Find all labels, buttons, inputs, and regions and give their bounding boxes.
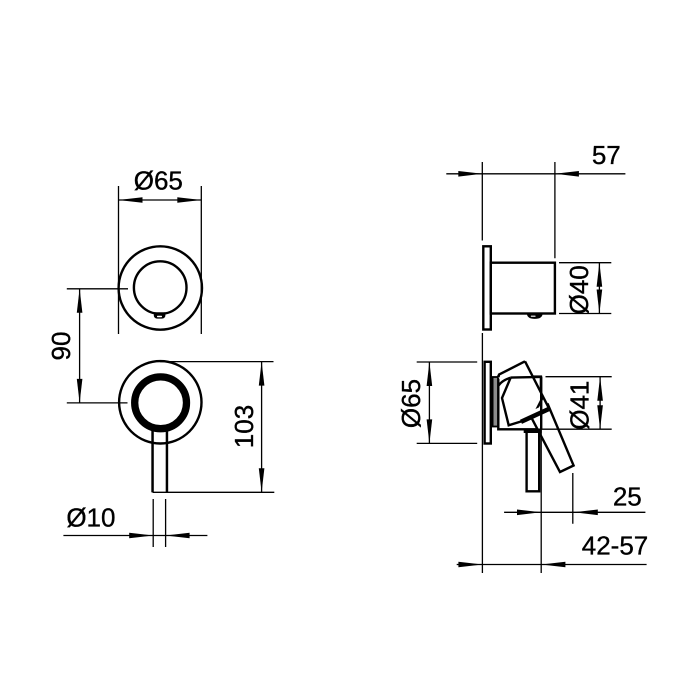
svg-text:Ø65: Ø65	[396, 379, 426, 428]
svg-text:25: 25	[613, 482, 642, 512]
svg-text:Ø10: Ø10	[66, 502, 115, 532]
svg-text:90: 90	[46, 332, 76, 361]
svg-text:57: 57	[592, 140, 621, 170]
svg-text:42-57: 42-57	[582, 531, 649, 561]
svg-text:Ø65: Ø65	[134, 166, 183, 196]
svg-text:Ø40: Ø40	[564, 265, 594, 314]
svg-text:103: 103	[229, 405, 259, 448]
svg-text:Ø41: Ø41	[565, 381, 595, 430]
